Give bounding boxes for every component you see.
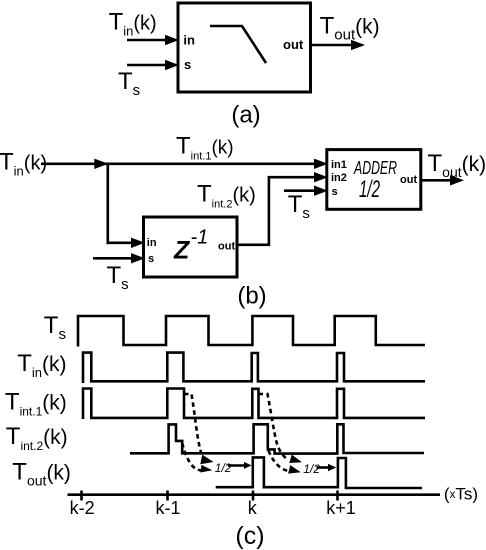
svg-text:in: in	[147, 237, 157, 249]
svg-text:out: out	[218, 241, 235, 253]
svg-text:ADDER: ADDER	[353, 158, 397, 178]
svg-text:Tin(k): Tin(k)	[17, 350, 66, 380]
solid arrow group2	[317, 466, 330, 469]
wire out (a)	[311, 44, 353, 47]
svg-text:Tin(k): Tin(k)	[109, 9, 157, 39]
svg-text:Tint.2(k): Tint.2(k)	[197, 180, 256, 210]
arrowhead in1 adder	[314, 159, 328, 169]
arrowhead dashed A2	[289, 455, 303, 467]
tick k+1	[336, 491, 339, 501]
svg-text:Tout(k): Tout(k)	[320, 13, 380, 44]
waveform Tint.1	[83, 389, 425, 420]
solid arrow group1	[228, 464, 245, 467]
waveform Ts	[78, 316, 425, 347]
svg-text:(a): (a)	[231, 102, 260, 129]
arrowhead in (a)	[165, 35, 179, 45]
svg-text:k-1: k-1	[155, 498, 180, 518]
arrowhead Z s	[131, 253, 145, 263]
dashed arrow A group2 (Tint.1 k to Tout k+1)	[259, 394, 289, 460]
adder box	[327, 150, 421, 210]
arrowhead Z in	[131, 238, 145, 248]
svg-text:1/2: 1/2	[215, 461, 232, 475]
waveform Tint.2	[130, 424, 424, 453]
dashed arrow B group1 (Tint.2 k-1 to Tout k)	[182, 443, 202, 471]
svg-text:in2: in2	[331, 172, 347, 184]
arrowhead dashed B1	[200, 465, 212, 474]
svg-text:in: in	[183, 33, 195, 48]
svg-text:k+1: k+1	[326, 498, 356, 518]
filter response curve inside block A	[210, 26, 266, 63]
waveform Tout	[216, 457, 422, 488]
svg-text:out: out	[400, 174, 417, 186]
svg-text:(b): (b)	[237, 282, 266, 309]
svg-text:k-2: k-2	[70, 498, 95, 518]
dashed arrow A group1 (Tint.1 k-1 to Tout k)	[184, 394, 205, 459]
svg-text:s: s	[184, 57, 191, 72]
arrowhead dashed A1	[200, 455, 214, 467]
wire Tin main (b)	[41, 163, 316, 166]
svg-text:Z: Z	[173, 237, 191, 265]
svg-text:Tint.1(k): Tint.1(k)	[5, 389, 67, 419]
svg-text:-1: -1	[191, 227, 209, 249]
tick k-1	[166, 491, 169, 501]
arrowhead dashed B2	[288, 465, 302, 476]
svg-text:Ts: Ts	[118, 68, 140, 99]
waveform Tin	[83, 353, 425, 383]
delay block Z^-1 box	[144, 217, 238, 277]
arrowhead s (a)	[165, 60, 179, 70]
arrowhead out (a)	[351, 40, 365, 50]
svg-text:(c): (c)	[235, 522, 264, 550]
wire to Z in	[107, 242, 133, 245]
svg-text:out: out	[283, 37, 304, 52]
svg-text:in1: in1	[331, 159, 347, 171]
svg-text:Ts: Ts	[288, 191, 310, 222]
wire junction down (b)	[107, 164, 110, 244]
svg-text:Ts: Ts	[107, 262, 129, 293]
block A box	[178, 3, 311, 92]
svg-text:s: s	[332, 186, 338, 198]
wire Tin to in (a)	[127, 39, 166, 42]
wire Ts to Z s	[93, 257, 132, 260]
arrowhead adder out	[450, 175, 464, 185]
svg-text:Tout(k): Tout(k)	[428, 150, 486, 180]
arrowhead at junction (b)	[94, 159, 108, 169]
arrowhead adder s	[314, 186, 328, 196]
arrowhead solid group2	[328, 464, 336, 472]
svg-text:(xTs): (xTs)	[444, 484, 478, 503]
svg-text:Tint.2(k): Tint.2(k)	[6, 423, 68, 453]
svg-text:Tin(k): Tin(k)	[0, 149, 47, 179]
svg-text:Tout(k): Tout(k)	[12, 458, 71, 488]
svg-text:1/2: 1/2	[359, 176, 380, 203]
wire Z out	[237, 177, 316, 245]
wire adder out	[422, 179, 452, 182]
tick k-2	[80, 491, 83, 501]
svg-text:Tint.1(k): Tint.1(k)	[176, 132, 234, 162]
arrowhead solid group1	[244, 462, 252, 469]
svg-text:s: s	[148, 253, 154, 265]
dashed arrow B group2 (Tint.2 k to Tout k+1)	[269, 451, 293, 472]
tick k	[252, 491, 255, 501]
time axis	[68, 493, 441, 496]
svg-text:Ts: Ts	[44, 312, 66, 343]
svg-text:k: k	[248, 498, 258, 518]
wire Ts to s (a)	[127, 64, 166, 67]
wire Ts to adder s	[284, 189, 316, 192]
arrowhead in2 adder	[314, 172, 328, 182]
